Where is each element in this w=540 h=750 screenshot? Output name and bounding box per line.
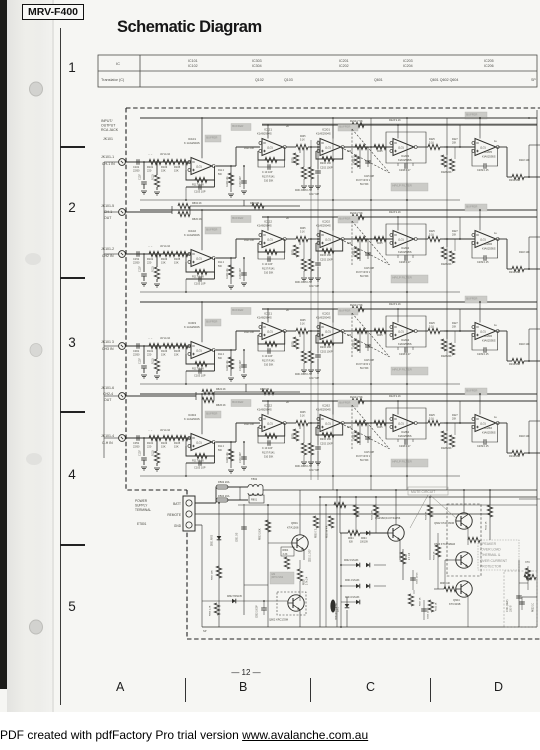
svg-text:FB04 20A: FB04 20A <box>218 494 230 498</box>
svg-text:(1/2): (1/2) <box>325 421 331 425</box>
svg-text:C215 33P: C215 33P <box>364 360 375 362</box>
ticks <box>60 146 85 148</box>
svg-text:(1/2): (1/2) <box>325 145 331 149</box>
top rail <box>201 117 537 119</box>
svg-text:R210 18K: R210 18K <box>509 179 520 182</box>
svg-text:R117 1.3K: R117 1.3K <box>192 367 204 371</box>
svg-text:5.1K: 5.1K <box>300 140 305 142</box>
label buffer <box>205 135 221 142</box>
wire batt <box>195 502 216 504</box>
resistor R803 100K <box>265 520 270 532</box>
resistor R129 13K <box>230 258 232 284</box>
caps C603/C605 <box>412 570 414 590</box>
svg-text:R228 20K: R228 20K <box>441 355 452 358</box>
svg-text:R225: R225 <box>293 249 295 255</box>
capacitor C107 <box>143 438 145 456</box>
svg-text:POWER: POWER <box>135 499 148 503</box>
capacitor C134 33P <box>243 350 245 373</box>
svg-text:R121 10K: R121 10K <box>244 240 255 242</box>
resistor R103 <box>163 159 175 164</box>
svg-text:C202 100P: C202 100P <box>320 167 333 170</box>
svg-text:CH3 IN: CH3 IN <box>102 347 114 351</box>
svg-text:ZD604 KTL4.3A: ZD604 KTL4.3A <box>335 603 338 620</box>
svg-text:C202 100P: C202 100P <box>320 443 333 446</box>
svg-text:100109: 100109 <box>360 542 368 544</box>
svg-text:C151: C151 <box>133 257 140 261</box>
input RCA jack <box>119 435 126 442</box>
svg-text:R803 100K: R803 100K <box>260 528 262 540</box>
resistor R228 <box>417 330 428 332</box>
svg-text:1a: 1a <box>494 417 497 419</box>
svg-text:(1/2): (1/2) <box>196 440 202 444</box>
wire v+ <box>201 210 203 250</box>
resistor R213 7.5K <box>352 122 364 127</box>
svg-text:R225: R225 <box>293 433 295 439</box>
model number box <box>22 4 84 20</box>
svg-text:R612 1K: R612 1K <box>486 521 488 530</box>
svg-text:(1/2): (1/2) <box>398 421 404 425</box>
svg-text:KIA62595S: KIA62595S <box>398 434 412 438</box>
shield ground rail <box>103 162 105 458</box>
wire right loop <box>528 421 530 453</box>
resistor R129 13K <box>230 166 232 192</box>
ground <box>141 374 147 376</box>
svg-text:R105: R105 <box>174 165 181 169</box>
svg-text:R602: R602 <box>406 554 408 560</box>
capacitor C208 <box>404 439 406 445</box>
svg-text:R609 1K: R609 1K <box>434 551 436 560</box>
svg-text:R804: R804 <box>283 549 289 552</box>
wire input <box>126 253 192 255</box>
capacitor C103 <box>186 278 215 280</box>
label hp/lp filter <box>391 275 428 283</box>
row index numbers <box>64 60 80 75</box>
svg-text:C208 0.17: C208 0.17 <box>399 261 411 264</box>
svg-text:IC204: IC204 <box>401 246 409 250</box>
label gray op3 <box>338 308 358 315</box>
mute circuit area <box>408 487 448 495</box>
resistor R210 output <box>444 330 475 332</box>
svg-text:(1/2): (1/2) <box>480 329 486 333</box>
svg-text:IC204: IC204 <box>401 338 409 342</box>
svg-text:K1AE2904S: K1AE2904S <box>316 224 331 228</box>
svg-text:BUFFER: BUFFER <box>206 227 217 231</box>
svg-text:15K: 15K <box>174 169 179 173</box>
svg-text:BUFFER: BUFFER <box>339 400 350 404</box>
resistor R225 <box>286 146 296 148</box>
svg-text:OUT: OUT <box>104 216 112 220</box>
svg-text:C103 10P: C103 10P <box>194 190 206 194</box>
resistor cluster <box>301 259 306 271</box>
svg-text:VA VA VA: VA VA VA <box>160 337 171 340</box>
svg-text:C107: C107 <box>139 358 142 364</box>
label gray op5 <box>465 296 487 303</box>
svg-text:BUFFER: BUFFER <box>466 388 477 392</box>
resistor R105 <box>176 159 188 164</box>
wire row bus <box>140 291 460 293</box>
diode D802 <box>232 599 236 604</box>
svg-text:ET801: ET801 <box>137 522 147 526</box>
svg-text:HP/LP FILTER: HP/LP FILTER <box>392 460 412 464</box>
svg-text:R115: R115 <box>152 450 155 456</box>
svg-text:K 1AG2904S: K 1AG2904S <box>184 325 200 329</box>
resistor cluster <box>301 351 306 363</box>
svg-text:15K: 15K <box>161 169 166 173</box>
svg-text:CH2-4: CH2-4 <box>103 392 113 396</box>
svg-text:R233: R233 <box>354 341 356 347</box>
svg-text:C103 10P: C103 10P <box>194 374 206 378</box>
svg-text:R233: R233 <box>354 157 356 163</box>
wire op1-op2 <box>216 349 236 351</box>
svg-text:C208 0.17: C208 0.17 <box>399 353 411 356</box>
zener ZD604 <box>346 597 348 604</box>
svg-text:JK101-6: JK101-6 <box>101 386 114 390</box>
svg-text:R105: R105 <box>174 441 181 445</box>
channel row rails y=423 <box>140 393 537 395</box>
resistor R602 vert <box>402 549 404 580</box>
svg-text:R801: R801 <box>251 499 258 502</box>
svg-text:R223 9.1K: R223 9.1K <box>389 303 401 306</box>
op-amp IC102 <box>191 250 212 267</box>
resistor R115 <box>156 346 158 359</box>
svg-text:HP/LP FILTER: HP/LP FILTER <box>392 276 412 280</box>
svg-text:(1/2): (1/2) <box>196 164 202 168</box>
svg-text:C802 1000P: C802 1000P <box>257 605 259 618</box>
capacitor C301 <box>136 343 138 349</box>
svg-text:R115: R115 <box>152 174 155 180</box>
svg-text:R231 R229 1.5K: R231 R229 1.5K <box>295 190 312 192</box>
op-amp IC304 <box>191 434 212 451</box>
svg-text:R213 7.5K: R213 7.5K <box>350 395 363 399</box>
wire right loop <box>528 237 530 269</box>
svg-text:C134 33P: C134 33P <box>239 452 242 463</box>
svg-text:R210 18K: R210 18K <box>509 363 520 366</box>
dashed selector <box>344 425 390 449</box>
svg-text:15K: 15K <box>174 261 179 265</box>
svg-text:VA VA VA: VA VA VA <box>160 429 171 432</box>
svg-text:C215 33P: C215 33P <box>364 268 375 270</box>
resistor R105 <box>176 343 188 348</box>
svg-text:C208 0.17: C208 0.17 <box>399 169 411 172</box>
svg-text:C209 0.15: C209 0.15 <box>477 445 489 448</box>
svg-text:C215 33P: C215 33P <box>364 176 375 178</box>
black binder bar <box>0 0 7 689</box>
resistor R117 <box>186 258 215 272</box>
filter block loop <box>386 132 426 163</box>
svg-text:R228 20K: R228 20K <box>441 263 452 266</box>
resistor R117 <box>186 166 215 180</box>
svg-text:R802: R802 <box>304 579 306 585</box>
svg-text:IC201: IC201 <box>322 128 330 132</box>
label gray op5 <box>465 204 487 211</box>
svg-text:/OVER LOAD: /OVER LOAD <box>480 548 501 552</box>
svg-text:JK101-4: JK101-4 <box>101 434 114 438</box>
wire op1-op2 <box>216 441 236 443</box>
resistor R103 <box>163 343 175 348</box>
svg-text:C 10 10P: C 10 10P <box>262 171 273 174</box>
svg-text:93.97 VR 8/ 1: 93.97 VR 8/ 1 <box>356 180 371 182</box>
svg-text:15K: 15K <box>161 261 166 265</box>
capacitor C802 <box>261 607 267 609</box>
op-amp IC321 <box>262 323 283 340</box>
svg-text:OUTPUT: OUTPUT <box>101 124 116 128</box>
capacitor C107 <box>143 346 145 364</box>
dashed selector <box>344 333 390 357</box>
svg-text:C801 0/5: C801 0/5 <box>237 532 239 542</box>
capacitor C801 <box>241 526 247 528</box>
svg-text:K 1AG2904S: K 1AG2904S <box>184 233 200 237</box>
svg-text:R121 10K: R121 10K <box>244 424 255 426</box>
svg-text:R223 9.1K: R223 9.1K <box>389 119 401 122</box>
op-amp IC202 <box>320 231 341 248</box>
svg-text:R11 4: R11 4 <box>218 354 225 356</box>
svg-text:R115: R115 <box>152 358 155 364</box>
svg-text:BUFFER: BUFFER <box>206 135 217 139</box>
title <box>117 18 262 37</box>
capacitor C209 <box>483 347 485 353</box>
resistor R115 <box>156 162 158 175</box>
svg-text:220: 220 <box>147 169 152 173</box>
svg-text:5.1K: 5.1K <box>300 324 305 326</box>
capacitor C107 <box>143 162 145 180</box>
svg-text:Q&#160;04 KT41256: Q&#160;04 KT41256 <box>375 516 401 520</box>
svg-text:100/ 8: 100/ 8 <box>511 605 513 612</box>
wire v+ <box>201 394 203 434</box>
svg-text:(1/2): (1/2) <box>398 237 404 241</box>
svg-text:22/50: 22/50 <box>133 445 140 449</box>
resistor R802 <box>299 560 301 569</box>
svg-text:R604: R604 <box>348 538 354 540</box>
svg-text:500: 500 <box>218 266 223 268</box>
svg-text:C 10 10P: C 10 10P <box>262 355 273 358</box>
svg-text:R235: R235 <box>377 151 383 153</box>
wire input <box>126 161 192 163</box>
svg-text:C202 100P: C202 100P <box>320 351 333 354</box>
input RCA jack <box>119 343 126 350</box>
svg-text:R129 13K: R129 13K <box>226 360 229 371</box>
connector ET801 <box>183 496 195 531</box>
svg-text:KTA1266: KTA1266 <box>287 526 299 530</box>
svg-text:R210 130: R210 130 <box>320 162 331 165</box>
resistor R101 <box>149 159 161 164</box>
label buffer2 <box>231 308 251 315</box>
svg-text:R205: R205 <box>300 136 306 138</box>
svg-text:R213 7.5K: R213 7.5K <box>350 119 363 123</box>
svg-text:IC102: IC102 <box>188 229 196 233</box>
svg-text:62K: 62K <box>349 542 354 544</box>
svg-text:510 50K: 510 50K <box>264 180 274 183</box>
resistor R612 <box>489 490 491 505</box>
svg-text:15K: 15K <box>161 445 166 449</box>
svg-text:C107: C107 <box>139 450 142 456</box>
svg-text:R231 R229 1.5K: R231 R229 1.5K <box>295 282 312 284</box>
resistor R213 7.5K <box>352 306 364 311</box>
resistor R233 cluster <box>344 238 393 240</box>
svg-text:R205: R205 <box>300 228 306 230</box>
svg-text:22/50: 22/50 <box>133 261 140 265</box>
svg-text:R235: R235 <box>377 427 383 429</box>
svg-text:C209 0.15: C209 0.15 <box>477 261 489 264</box>
diode D604 <box>360 532 366 534</box>
svg-text:←←: ←← <box>148 337 153 340</box>
resistor R225 <box>286 330 296 332</box>
svg-text:R223 9.1K: R223 9.1K <box>389 395 401 398</box>
op-amp IC101 <box>191 158 212 175</box>
svg-text:SUPPLY: SUPPLY <box>135 504 148 508</box>
svg-text:IC202: IC202 <box>322 220 330 224</box>
svg-text:(1/2): (1/2) <box>480 237 486 241</box>
svg-text:REMOTE: REMOTE <box>167 513 181 517</box>
wire right loop <box>528 329 530 361</box>
svg-text:220: 220 <box>147 445 152 449</box>
label gray op5 <box>465 388 487 395</box>
svg-text:R103: R103 <box>161 441 168 445</box>
svg-text:K1AB2904S: K1AB2904S <box>257 132 272 136</box>
wire v+ <box>201 118 203 158</box>
capacitor C209 <box>483 439 485 445</box>
label buffer2 <box>231 124 251 131</box>
resistor R105 <box>176 435 188 440</box>
svg-text:TERMINAL: TERMINAL <box>135 508 151 512</box>
svg-text:C 10 10P: C 10 10P <box>262 447 273 450</box>
svg-text:R121 10K: R121 10K <box>244 332 255 334</box>
feedback op2 <box>258 331 285 344</box>
svg-text:2a: 2a <box>286 310 289 312</box>
resistor R233 cluster <box>344 422 393 424</box>
svg-text:IC206: IC206 <box>484 334 492 338</box>
svg-text:R231 R229 1.5K: R231 R229 1.5K <box>295 466 312 468</box>
parts table <box>0 0 540 100</box>
filter block loop <box>386 408 426 439</box>
svg-text:R101: R101 <box>147 165 154 169</box>
svg-text:BUFFER: BUFFER <box>232 400 243 404</box>
svg-text:1a: 1a <box>494 233 497 235</box>
label gray stby <box>270 572 294 584</box>
svg-text:PROTECTOR: PROTECTOR <box>480 564 502 568</box>
protector label <box>478 540 519 570</box>
svg-text:R137 R141: R137 R141 <box>262 176 275 179</box>
bottom bus <box>202 626 537 628</box>
resistor R129 13K <box>230 442 232 468</box>
svg-text:5.1K: 5.1K <box>300 416 305 418</box>
fuse FB04 20A <box>216 498 228 502</box>
capacitor C151 <box>136 251 138 257</box>
svg-text:5.1K: 5.1K <box>300 232 305 234</box>
svg-text:220: 220 <box>147 353 152 357</box>
svg-text:R129 13K: R129 13K <box>226 452 229 463</box>
capacitor C209 <box>483 255 485 261</box>
margin rule <box>60 28 61 705</box>
svg-text:500: 500 <box>218 358 223 360</box>
resistor R210 <box>316 331 343 343</box>
label buffer2 <box>231 216 251 223</box>
svg-text:5.1K: 5.1K <box>429 418 434 421</box>
svg-text:R233: R233 <box>354 249 356 255</box>
svg-text:R129 13K: R129 13K <box>226 268 229 279</box>
capacitor C134 33P <box>243 258 245 281</box>
svg-text:FB02 20A: FB02 20A <box>218 480 230 484</box>
op-amp IC206 <box>475 231 496 248</box>
feedback op2 <box>258 147 285 160</box>
svg-text:R701: R701 <box>525 572 531 574</box>
op-amp IC204 <box>393 323 414 340</box>
svg-text:BUFFER: BUFFER <box>206 411 217 415</box>
label gray op5 <box>465 112 487 119</box>
svg-text:R605 10K: R605 10K <box>372 510 374 520</box>
svg-text:HP/LP FILTER: HP/LP FILTER <box>392 184 412 188</box>
svg-text:JK101-2: JK101-2 <box>101 247 114 251</box>
svg-text:K1AE2904S: K1AE2904S <box>316 316 331 320</box>
svg-text:KIA62595S: KIA62595S <box>482 247 496 251</box>
svg-text:CH-1: CH-1 <box>104 210 112 214</box>
svg-text:R121 10K: R121 10K <box>244 148 255 150</box>
svg-text:R210 130: R210 130 <box>320 254 331 257</box>
resistor R605 <box>375 497 377 533</box>
svg-text:R802 2K: R802 2K <box>192 202 202 205</box>
svg-text:D601 1SS133: D601 1SS133 <box>345 580 360 582</box>
svg-text:R137 R141: R137 R141 <box>262 268 275 271</box>
resistor R210 output <box>444 422 475 424</box>
svg-text:R218 10K: R218 10K <box>519 343 530 346</box>
svg-text:R103: R103 <box>161 349 168 353</box>
svg-text:IC202: IC202 <box>322 312 330 316</box>
svg-text:R809 7.5: R809 7.5 <box>316 528 318 538</box>
footer text <box>0 728 368 742</box>
resistor R210 <box>316 147 343 159</box>
svg-text:ZD01 1.3/57: ZD01 1.3/57 <box>310 549 312 562</box>
ground <box>154 467 160 469</box>
svg-text:R218 10K: R218 10K <box>519 251 530 254</box>
svg-text:HP/LP FILTER: HP/LP FILTER <box>392 368 412 372</box>
svg-text:JK101 3: JK101 3 <box>101 340 114 344</box>
feedback op2 <box>258 239 285 252</box>
svg-text:RCA JACK: RCA JACK <box>101 128 119 132</box>
svg-text:BUFFER: BUFFER <box>232 124 243 128</box>
svg-text:R826 2K: R826 2K <box>216 404 226 407</box>
svg-text:BATT: BATT <box>173 502 181 506</box>
op-amp IC202 <box>320 323 341 340</box>
verticals power left <box>201 525 203 627</box>
svg-text:R233: R233 <box>354 433 356 439</box>
svg-text:220: 220 <box>147 261 152 265</box>
diode D801 <box>217 536 222 540</box>
svg-text:R103: R103 <box>161 165 168 169</box>
svg-text:CH2 IN: CH2 IN <box>102 254 114 258</box>
svg-text:93.97 VR 8/ 1: 93.97 VR 8/ 1 <box>356 456 371 458</box>
svg-text:R808 W 4/4: R808 W 4/4 <box>327 525 329 538</box>
svg-text:IC203: IC203 <box>401 154 409 158</box>
resistor R117 <box>186 442 215 456</box>
svg-text:BUFFER: BUFFER <box>232 216 243 220</box>
capacitor C101 <box>136 159 138 165</box>
resistor R210 output <box>444 238 475 240</box>
svg-text:15K: 15K <box>174 445 179 449</box>
op-amp IC322 <box>262 415 283 432</box>
svg-text:5.1K: 5.1K <box>429 234 434 237</box>
svg-text:Q801: Q801 <box>291 521 298 525</box>
resistor R804 <box>281 547 294 556</box>
resistor cluster <box>301 443 306 455</box>
svg-text:C101: C101 <box>133 165 140 169</box>
filter block loop <box>386 224 426 255</box>
gnd wire <box>195 524 202 526</box>
svg-text:IC262: IC262 <box>322 404 330 408</box>
svg-text:R205: R205 <box>300 412 306 414</box>
svg-text:R607 2K: R607 2K <box>420 597 422 606</box>
input RCA jack <box>119 159 126 166</box>
channel row rails y=147 <box>140 117 537 119</box>
svg-text:IC304: IC304 <box>188 413 196 417</box>
